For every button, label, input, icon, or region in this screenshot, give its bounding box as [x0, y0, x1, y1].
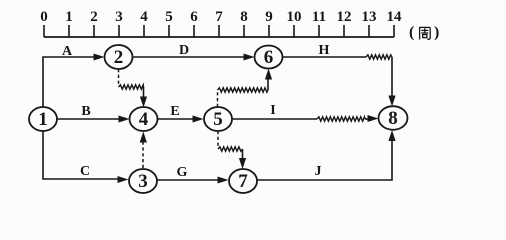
node 1 — [29, 107, 57, 131]
node 7 — [229, 169, 257, 193]
svg-text:0: 0 — [40, 9, 48, 25]
svg-text:11: 11 — [312, 9, 326, 25]
activity G wire: node 3 to node 7 — [157, 179, 219, 181]
svg-text:E: E — [170, 104, 179, 119]
activity A arrowhead — [94, 54, 105, 61]
node 6 — [255, 46, 283, 69]
svg-text:6: 6 — [264, 47, 274, 68]
svg-text:4: 4 — [139, 109, 149, 130]
activity J wire: node 7 right then up into node 8 — [257, 139, 392, 180]
node 4 — [130, 107, 158, 131]
activity J arrowhead into node 8 — [388, 130, 395, 141]
svg-text:1: 1 — [38, 109, 48, 130]
dummy 5-6 wavy float — [218, 88, 269, 92]
activity B wire: node 1 to node 4 — [57, 118, 120, 120]
svg-text:8: 8 — [240, 9, 248, 25]
dummy from node 2: drop wire into node 4 — [143, 87, 145, 98]
activity E arrowhead — [193, 116, 204, 123]
activity I arrowhead into node 8 — [368, 115, 379, 122]
svg-text:(: ( — [409, 24, 414, 41]
activity I tail wire — [365, 118, 369, 120]
activity I wire: node 5 right — [232, 118, 317, 120]
svg-text:J: J — [315, 164, 322, 179]
unit label 周 character drawn as strokes — [419, 27, 430, 39]
activity D wire: node 2 to node 6 — [133, 56, 246, 58]
activity H arrowhead into node 8 — [388, 96, 395, 107]
activity A wire: node 1 up then right to node 2 — [43, 57, 95, 107]
dummy 3-4: dashed vertical arrow up — [142, 141, 144, 168]
dummy 2-4 arrowhead — [140, 97, 147, 108]
svg-text:10: 10 — [287, 9, 302, 25]
svg-text:3: 3 — [138, 171, 148, 192]
dummy 5-7 arrowhead — [239, 158, 246, 169]
svg-text:A: A — [62, 44, 73, 59]
svg-text:G: G — [177, 165, 188, 180]
svg-text:1: 1 — [65, 9, 73, 25]
dummy from node 5 up: dashed rise — [217, 91, 219, 107]
node 8 — [379, 106, 408, 130]
svg-text:14: 14 — [387, 9, 403, 25]
activity B arrowhead — [119, 116, 130, 123]
dummy 5-7 wavy float — [218, 147, 243, 151]
svg-text:13: 13 — [362, 9, 377, 25]
activity H free-float wavy — [366, 55, 392, 59]
svg-text:9: 9 — [265, 9, 273, 25]
activity G arrowhead — [218, 177, 229, 184]
dummy from node 2: dashed drop — [118, 69, 120, 86]
time scale ruler baseline — [44, 36, 394, 38]
dummy 5-7 drop wire into node 7 — [242, 149, 244, 160]
activity E wire: node 4 to node 5 — [158, 118, 195, 120]
node 2 — [105, 45, 133, 69]
time scale numbers 0-14 — [40, 9, 402, 25]
activity I free-float wavy — [317, 117, 365, 121]
svg-text:5: 5 — [213, 109, 223, 130]
svg-text:D: D — [179, 43, 189, 58]
time scale ruler ticks 0-14 — [44, 25, 394, 37]
svg-text:7: 7 — [238, 171, 248, 192]
activity H wire: node 6 right — [283, 56, 367, 58]
svg-text:4: 4 — [140, 9, 148, 25]
activity D arrowhead — [244, 54, 255, 61]
activity H wire down into node 8 — [391, 57, 393, 97]
node 3 — [129, 169, 157, 193]
dummy 5-6 rise wire into node 6 — [267, 78, 269, 90]
svg-text:12: 12 — [337, 9, 352, 25]
svg-text:6: 6 — [190, 9, 198, 25]
svg-text:7: 7 — [215, 9, 223, 25]
svg-text:H: H — [319, 43, 330, 58]
svg-text:C: C — [80, 164, 90, 179]
dummy from node 5 down: dashed drop — [217, 131, 219, 148]
node 5 — [204, 107, 232, 131]
svg-text:): ) — [434, 24, 439, 41]
svg-text:B: B — [81, 104, 90, 119]
svg-text:8: 8 — [388, 108, 398, 129]
dummy from node 2: wavy float — [119, 85, 144, 89]
svg-text:3: 3 — [115, 9, 123, 25]
activity C wire: node 1 down then right to node 3 — [43, 131, 119, 179]
activity C arrowhead — [118, 176, 129, 183]
svg-text:5: 5 — [165, 9, 173, 25]
svg-text:2: 2 — [90, 9, 98, 25]
dummy 5-6 arrowhead — [265, 69, 272, 80]
svg-text:2: 2 — [114, 47, 124, 68]
svg-text:I: I — [270, 103, 275, 118]
dummy 3-4 arrowhead — [140, 132, 147, 143]
